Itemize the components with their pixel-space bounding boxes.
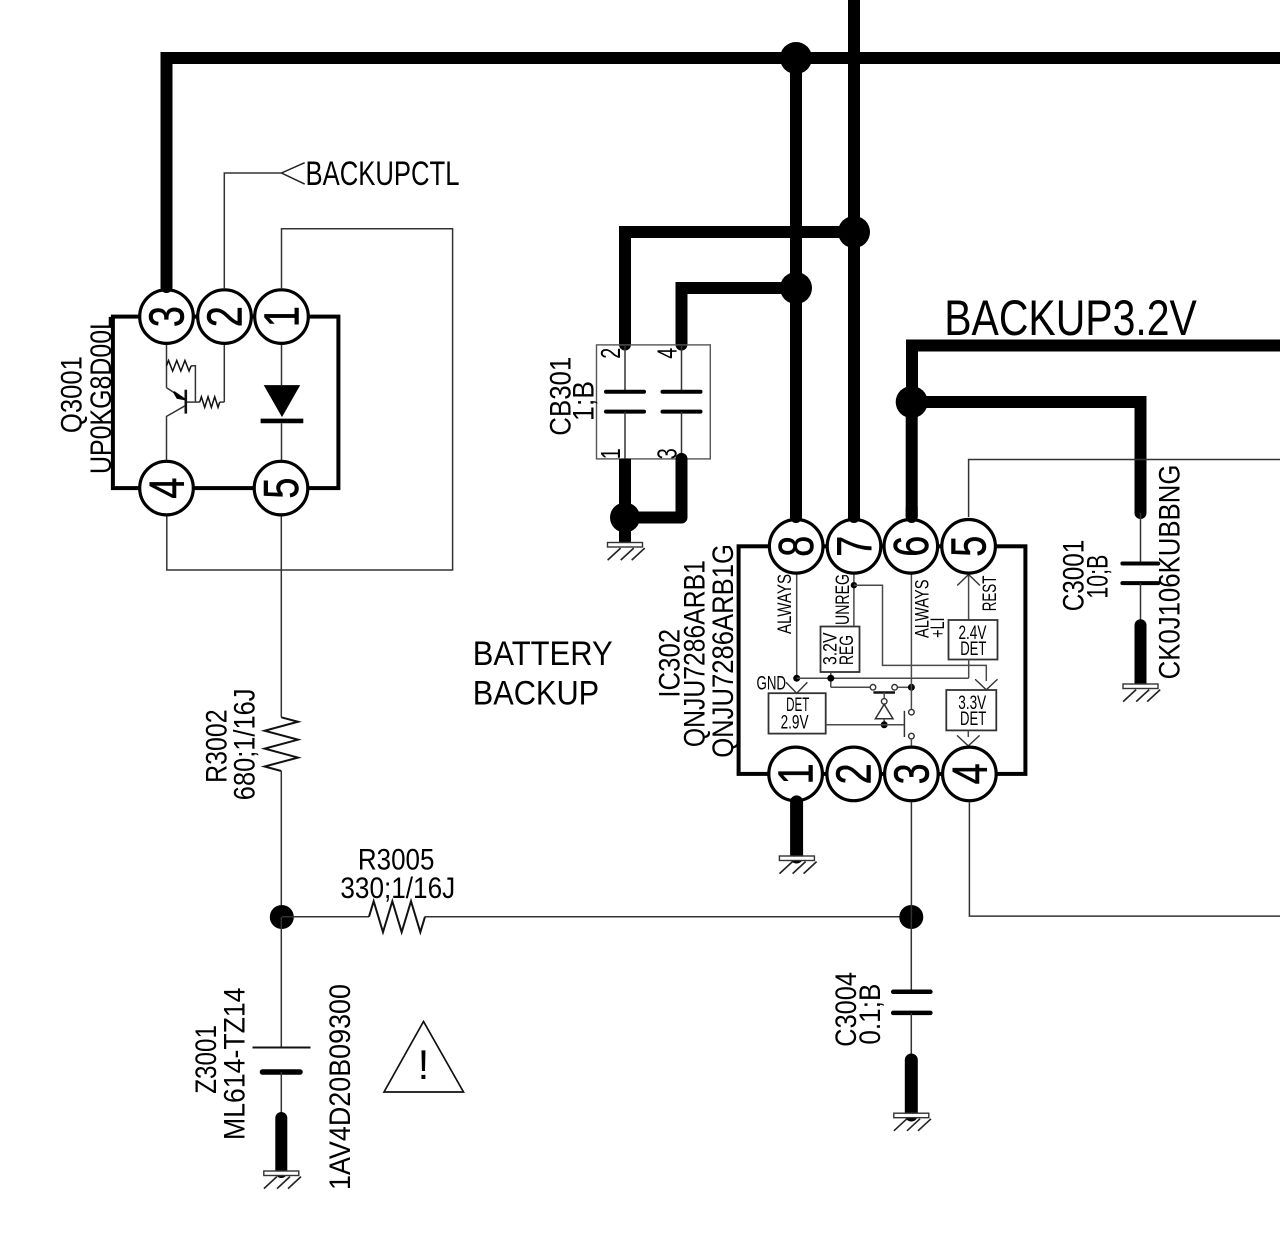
resistor Q3001 internal R1 <box>167 361 196 403</box>
wire IC302 pin4 down <box>969 802 1280 916</box>
net label BACKUP3.2V <box>944 290 1197 346</box>
wire R3005 to pin3 node <box>425 916 900 918</box>
label QNJU7286ARB1G <box>707 544 740 758</box>
wire junction to R3005 <box>282 916 369 918</box>
svg-text:330;1/16J: 330;1/16J <box>340 872 455 905</box>
diode internal bar <box>873 691 895 693</box>
label CK0J106KUBBNG <box>1154 465 1187 680</box>
capacitor network CB301 box <box>597 345 711 459</box>
label 3.2V <box>820 633 842 666</box>
net label BACKUPCTL <box>306 155 460 193</box>
junction dot pin3 node <box>899 905 923 929</box>
svg-text:1: 1 <box>595 448 626 459</box>
diode D inside Q3001 anode wire <box>281 345 283 385</box>
svg-text:5: 5 <box>255 478 309 499</box>
label QNJU7286ARB1 <box>679 560 712 747</box>
battery Z3001 <box>253 1048 311 1073</box>
label 680;1/16J <box>229 689 262 801</box>
node REG stub junction <box>827 675 834 682</box>
block DET 2.9V box <box>769 693 826 733</box>
pin 3 of IC302 <box>885 747 940 801</box>
junction dot CB301 ground <box>610 503 640 533</box>
node pin6 internal junction <box>908 684 915 691</box>
wire diode to rail <box>883 719 885 725</box>
wire IC302 pin3 down <box>910 802 912 917</box>
label C3004 <box>830 972 863 1047</box>
pin 1 of IC302 <box>769 747 824 801</box>
svg-text:REG: REG <box>836 635 858 665</box>
ground C3001 <box>1123 684 1160 702</box>
svg-text:UP0KG8D00L: UP0KG8D00L <box>85 316 118 474</box>
svg-text:6: 6 <box>885 536 939 557</box>
warning triangle <box>384 1022 464 1093</box>
wire IC302 internal rail <box>797 677 969 679</box>
svg-text:CK0J106KUBBNG: CK0J106KUBBNG <box>1154 465 1187 680</box>
pin 2 label CB301 <box>595 348 626 359</box>
svg-text:1;B: 1;B <box>568 381 601 421</box>
svg-text:Q3001: Q3001 <box>56 356 89 433</box>
label CB301 value 1;B <box>568 381 601 421</box>
label Z3001 <box>190 1025 223 1094</box>
transistor Q3001 emitter arrow <box>167 388 185 400</box>
label C3001 <box>1058 540 1091 612</box>
label CB301 <box>545 357 578 436</box>
label R3002 <box>201 709 234 783</box>
ground C3004 <box>894 1113 931 1131</box>
svg-text:BACKUP: BACKUP <box>473 674 600 712</box>
label UNREG pin7 <box>832 574 854 625</box>
pin 5 of IC302 <box>942 520 997 574</box>
svg-text:+LI: +LI <box>927 617 949 638</box>
wire IC302 pin 5 net <box>969 460 1280 518</box>
pin 4 of IC302 <box>943 747 998 801</box>
wire stub tip pin6 <box>906 508 918 517</box>
svg-text:GND: GND <box>757 672 787 694</box>
label 3.3V <box>958 692 986 714</box>
wire diode to pin5 <box>281 423 283 460</box>
wire CB301 pin1 to ground <box>619 459 631 512</box>
diode internal <box>875 693 893 719</box>
wire C3001 ground stub <box>1135 625 1147 683</box>
label 2.4V <box>959 622 987 644</box>
svg-text:4: 4 <box>141 478 195 499</box>
pin 2 of IC302 <box>827 747 882 801</box>
svg-text:5: 5 <box>943 536 997 557</box>
node pin8 internal junction <box>793 675 800 682</box>
svg-text:2: 2 <box>828 763 882 784</box>
arrow into pin4 <box>957 735 980 746</box>
wire Q3001 pin5 down <box>280 516 282 717</box>
svg-text:1: 1 <box>256 306 310 327</box>
svg-text:1AV4D20B09300: 1AV4D20B09300 <box>324 984 357 1190</box>
label REST <box>979 576 1001 612</box>
label +LI <box>927 617 949 638</box>
caption BATTERY BACKUP <box>473 635 613 712</box>
IC IC302 body box <box>739 546 1026 774</box>
wire CB301 pin3 to ground <box>630 459 682 518</box>
arrow GND into DET 2.9V <box>786 682 807 693</box>
wire IC302 pin7 internal <box>853 574 855 626</box>
wire C3004 ground stub <box>905 1060 918 1115</box>
svg-text:DET: DET <box>960 708 986 730</box>
svg-text:1: 1 <box>770 763 824 784</box>
label 0.1;B <box>854 984 887 1045</box>
wire Q3001 pin2 base lead <box>223 345 225 402</box>
wire bus corner down to Q3001 pin 3 <box>161 52 173 293</box>
wire Q3001 pin4 to pin1 loop <box>167 229 453 570</box>
wire REST pin5 <box>968 574 970 620</box>
label 10;B <box>1082 555 1115 599</box>
ground Z3001 <box>264 1171 301 1189</box>
capacitor C3001 <box>1122 513 1158 625</box>
svg-text:!: ! <box>418 1041 430 1088</box>
svg-text:ALWAYS: ALWAYS <box>774 574 796 634</box>
pin 5 of Q3001 <box>254 461 309 515</box>
svg-text:REST: REST <box>979 576 1001 612</box>
wire CB301 ground stub <box>619 518 631 541</box>
junction dot BACKUP3.2V <box>896 386 928 418</box>
capacitor C3004 <box>893 992 930 1013</box>
capacitor CB301 left half <box>606 345 644 459</box>
wire battery to ground <box>280 1072 282 1114</box>
svg-text:UNREG: UNREG <box>832 574 854 625</box>
svg-text:2.9V: 2.9V <box>781 712 809 734</box>
svg-text:QNJU7286ARB1G: QNJU7286ARB1G <box>707 544 740 758</box>
block 2.4V DET box <box>949 620 998 660</box>
label DET <box>786 694 809 716</box>
resistor Q3001 internal base R2 <box>186 397 225 408</box>
wire pin3 node to C3004 <box>910 917 912 992</box>
wire stub tip Q3001 pin3 <box>161 278 173 287</box>
wire C3004 to ground <box>910 1013 912 1056</box>
wire BACKUP3.2V to C3001 <box>912 402 1147 519</box>
node pin7 internal junction <box>851 582 857 588</box>
svg-text:7: 7 <box>828 536 882 557</box>
wire BACKUPCTL to pin 2 <box>224 173 281 288</box>
label Q3001 <box>56 356 89 433</box>
pin 4 label CB301 <box>652 348 683 359</box>
capacitor CB301 right half <box>663 345 701 459</box>
svg-text:8: 8 <box>770 536 824 557</box>
svg-text:BACKUP3.2V: BACKUP3.2V <box>944 290 1197 346</box>
svg-text:4: 4 <box>652 348 683 359</box>
wire IC302 pin1 ground stub <box>790 802 803 857</box>
wire 2.4VDET to rail <box>968 660 970 679</box>
transistor Q3001 body box <box>113 317 339 489</box>
transistor Q3001 collector lead <box>167 406 186 460</box>
wire 3.3VDET to pin4 <box>967 730 969 737</box>
wire R3002 to junction <box>280 771 282 917</box>
label 1AV4D20B09300 <box>324 984 357 1190</box>
label 330;1/16J <box>340 872 455 905</box>
svg-text:ML614-TZ14: ML614-TZ14 <box>219 988 252 1141</box>
block 3.3V DET box <box>946 690 996 730</box>
switch line internal <box>831 686 912 688</box>
svg-text:2: 2 <box>199 306 253 327</box>
svg-text:4: 4 <box>943 763 997 784</box>
junction dot pin7 bus <box>838 216 870 248</box>
wire bus to IC302 pin 6 <box>906 402 918 522</box>
svg-text:DET: DET <box>960 638 986 660</box>
label ALWAYS pin6 <box>912 580 934 639</box>
ground IC302 pin1 <box>779 856 816 874</box>
wire DET2.9V to switch lever <box>826 724 905 726</box>
wire vertical bus to IC302 pin 7 <box>848 0 860 523</box>
pin 1 label CB301 <box>595 448 626 459</box>
wire battery ground stub <box>275 1118 287 1172</box>
resistor R3002 <box>265 717 298 771</box>
net label BACKUPCTL arrow <box>282 163 305 184</box>
svg-text:BATTERY: BATTERY <box>473 635 613 673</box>
label DET 2.4 <box>960 638 986 660</box>
pin 2 of Q3001 <box>198 290 253 344</box>
label UP0KG8D00L <box>85 316 118 474</box>
pin 6 of IC302 <box>884 520 939 574</box>
wire vertical bus to IC302 pin 8 <box>790 58 802 522</box>
wire CB301 pin2 bus <box>619 232 854 351</box>
pin 4 of Q3001 <box>140 461 195 515</box>
wire stub tip pin7 <box>848 508 860 517</box>
diode D inside Q3001 <box>261 385 304 421</box>
label ALWAYS pin8 <box>774 574 796 634</box>
label ML614-TZ14 <box>219 988 252 1141</box>
wire stub tip pin8 <box>790 508 802 517</box>
svg-text:10;B: 10;B <box>1082 555 1115 599</box>
pin 3 of Q3001 <box>140 290 195 344</box>
wire Q3001 internal pin3 lead <box>166 345 168 388</box>
pin 3 label CB301 <box>652 448 683 459</box>
resistor R3005 <box>369 901 425 932</box>
svg-text:BACKUPCTL: BACKUPCTL <box>306 155 460 193</box>
pin 7 of IC302 <box>827 520 882 574</box>
transistor Q3001 base bar <box>185 390 188 414</box>
label R3005 <box>358 844 435 877</box>
label GND <box>757 672 787 694</box>
switch contact d <box>909 733 915 739</box>
pin 8 of IC302 <box>769 520 824 574</box>
arrow REST up <box>957 575 980 586</box>
junction dot battery node <box>270 905 294 929</box>
switch contact c <box>909 709 915 715</box>
label 2.9V <box>781 712 809 734</box>
label IC302 <box>654 629 687 698</box>
wire IC302 pin6 internal <box>910 574 912 709</box>
switch lever bar <box>903 711 905 737</box>
node diode junction <box>881 721 888 728</box>
label DET 3.3 <box>960 708 986 730</box>
svg-text:3: 3 <box>885 763 939 784</box>
wire junction to battery <box>280 917 282 1047</box>
switch contact b <box>892 685 898 691</box>
label REG <box>836 635 858 665</box>
arrow into 3.3V DET <box>975 679 997 690</box>
svg-text:3: 3 <box>141 306 195 327</box>
junction dot bus top <box>780 42 812 74</box>
switch contact a <box>870 685 876 691</box>
pin 1 of Q3001 <box>255 290 310 344</box>
junction dot pin8 bus <box>780 272 812 304</box>
ground CB301 <box>608 543 645 561</box>
wire pin7 branch <box>854 585 986 681</box>
svg-text:2: 2 <box>595 348 626 359</box>
wire CB301 pin4 bus <box>676 288 797 351</box>
wire 3.2V REG stub <box>830 672 832 687</box>
wire IC302 pin8 internal <box>796 574 798 678</box>
svg-text:0.1;B: 0.1;B <box>854 984 887 1045</box>
wire to pin3 internal <box>910 739 912 747</box>
wire BACKUP3.2V bus <box>912 346 1280 403</box>
wire VBAT bus top horizontal <box>161 52 1280 64</box>
svg-text:680;1/16J: 680;1/16J <box>229 689 262 801</box>
block 3.2V REG box <box>821 627 860 673</box>
